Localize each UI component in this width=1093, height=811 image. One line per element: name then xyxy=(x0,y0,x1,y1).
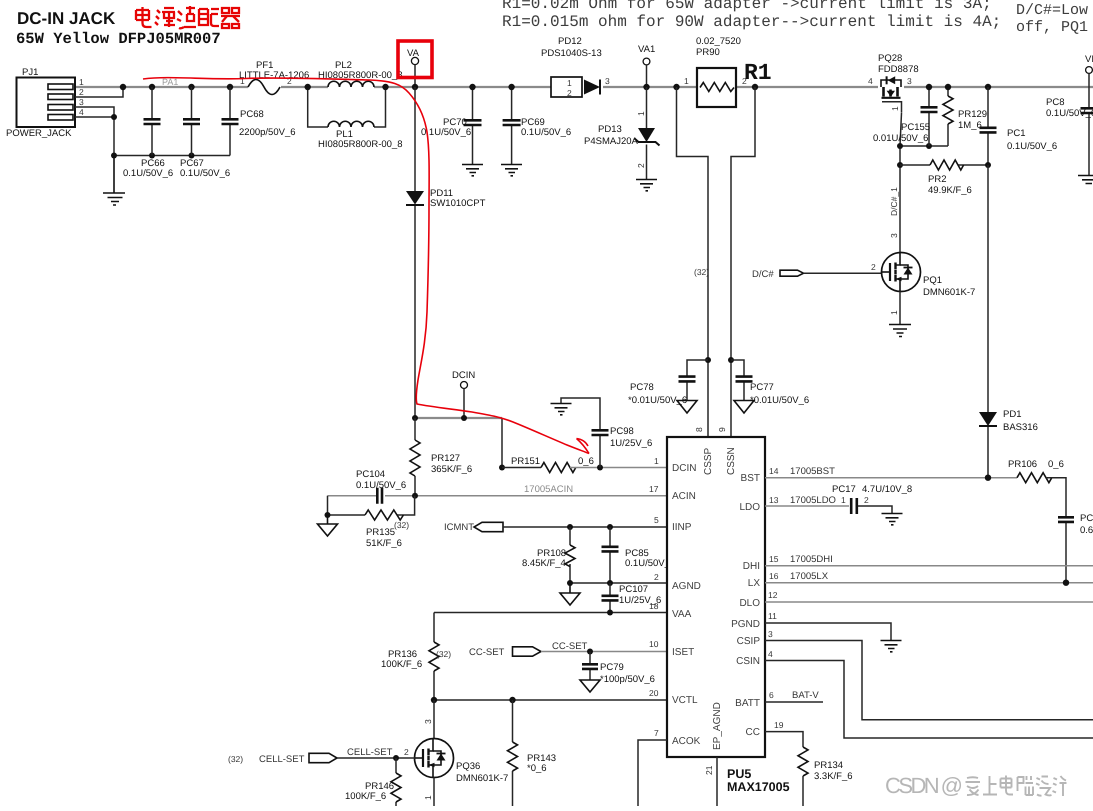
ground PGND xyxy=(881,641,902,652)
node dot ISET/PC79 xyxy=(587,649,593,655)
svg-text:ACIN: ACIN xyxy=(672,491,696,502)
svg-text:CELL-SET: CELL-SET xyxy=(347,747,393,758)
svg-text:*0.01U/50V_6: *0.01U/50V_6 xyxy=(750,395,809,406)
resistor PR136 xyxy=(381,613,451,701)
label (32) on sense line xyxy=(694,267,709,277)
wire PC155/PR129 bottom rail xyxy=(900,145,948,147)
node dot CELL-SET/PR146 xyxy=(393,755,399,761)
node dots gate rail xyxy=(897,143,932,168)
capacitor PC79 xyxy=(582,652,655,686)
net label BAT-V xyxy=(792,690,819,701)
ground rail under input caps xyxy=(114,155,230,157)
svg-text:0.1U/50V_6: 0.1U/50V_6 xyxy=(180,168,230,179)
svg-text:PC3: PC3 xyxy=(1080,513,1093,524)
capacitor PC78 xyxy=(628,360,708,406)
node dot LX/bootstrap xyxy=(1063,580,1069,586)
capacitor PC66 xyxy=(123,87,173,179)
testpoint V (clipped at right edge) xyxy=(1085,54,1093,87)
svg-text:ACOK: ACOK xyxy=(672,736,701,747)
label pin3 PQ36 xyxy=(423,719,433,724)
net label 17005BST xyxy=(790,466,835,477)
resistor PR127 xyxy=(410,418,472,496)
wire PGND net xyxy=(765,623,891,640)
svg-text:1: 1 xyxy=(567,78,572,88)
node dots bus right section xyxy=(926,84,991,90)
diode PD12 PDS1040S-13 xyxy=(541,36,610,98)
svg-text:CSIP: CSIP xyxy=(737,636,761,647)
wire PJ1 pin3 down xyxy=(75,107,114,156)
svg-text:VCTL: VCTL xyxy=(672,695,698,706)
diode PD11 SW1010CPT xyxy=(406,87,486,418)
svg-text:PC77: PC77 xyxy=(750,382,774,393)
svg-text:PR129: PR129 xyxy=(958,109,987,120)
ground PR135 (open triangle) xyxy=(318,515,338,536)
off-page connector D/C# xyxy=(752,262,882,280)
svg-text:0.1U/50V_6: 0.1U/50V_6 xyxy=(123,168,173,179)
svg-text:1: 1 xyxy=(889,310,899,315)
label D/C#_1 vertical xyxy=(889,187,899,216)
svg-text:HI0805R800R-00_8: HI0805R800R-00_8 xyxy=(318,139,403,150)
node dots DCIN rail xyxy=(412,415,505,471)
node junction dots on rail xyxy=(111,114,195,159)
svg-text:11: 11 xyxy=(768,611,777,621)
svg-text:8.45K/F_4: 8.45K/F_4 xyxy=(522,558,566,569)
net label 17005ACIN xyxy=(524,484,573,495)
svg-text:R1=0.02m Ohm for 65W adapter -: R1=0.02m Ohm for 65W adapter ->current l… xyxy=(502,0,992,13)
svg-text:10: 10 xyxy=(649,639,659,649)
svg-text:PC107: PC107 xyxy=(619,584,648,595)
wire DCIN rail xyxy=(415,417,502,419)
resistor PR106 xyxy=(1008,459,1066,516)
svg-text:4: 4 xyxy=(768,649,773,659)
svg-text:CC: CC xyxy=(746,727,760,738)
svg-text:PDS1040S-13: PDS1040S-13 xyxy=(541,48,602,59)
node dots AGND xyxy=(567,580,613,586)
wire PQ36 source down xyxy=(433,778,435,807)
title DC-IN JACK xyxy=(17,9,116,28)
svg-text:13: 13 xyxy=(769,495,779,505)
node dot PR151/PC98 xyxy=(597,465,603,471)
node dot VA1 xyxy=(643,84,649,90)
svg-text:51K/F_6: 51K/F_6 xyxy=(366,538,402,549)
svg-text:49.9K/F_6: 49.9K/F_6 xyxy=(928,185,972,196)
off-page connector ICMNT xyxy=(444,522,667,533)
svg-text:D/C#=Low: D/C#=Low xyxy=(1016,2,1088,19)
svg-text:3: 3 xyxy=(79,97,84,107)
svg-text:BST: BST xyxy=(741,473,760,484)
svg-text:2: 2 xyxy=(636,163,646,168)
svg-text:(32): (32) xyxy=(436,649,451,659)
ground PC98 xyxy=(551,404,572,415)
sense resistor PR90 0.02_7520 (R1) xyxy=(684,36,747,107)
annotation text line 2 xyxy=(502,13,1001,31)
svg-text:PC155: PC155 xyxy=(901,122,930,133)
svg-text:ISET: ISET xyxy=(672,647,694,658)
testpoint VA xyxy=(407,48,420,87)
svg-text:BAS316: BAS316 xyxy=(1003,422,1038,433)
svg-text:FDD8878: FDD8878 xyxy=(878,64,919,75)
svg-text:65W Yellow DFPJ05MR007: 65W Yellow DFPJ05MR007 xyxy=(16,30,221,48)
node dots CSSP/CSSN branches xyxy=(705,357,734,363)
svg-text:2: 2 xyxy=(404,747,409,757)
svg-text:(32): (32) xyxy=(228,754,243,764)
svg-text:DCIN: DCIN xyxy=(452,370,475,381)
svg-text:PC17: PC17 xyxy=(832,484,856,495)
resistor PR134 xyxy=(798,747,853,806)
resistor PR2 xyxy=(900,160,988,196)
svg-text:PR134: PR134 xyxy=(814,760,843,771)
svg-text:PR2: PR2 xyxy=(928,174,946,185)
svg-text:PR106: PR106 xyxy=(1008,459,1037,470)
svg-text:CSSN: CSSN xyxy=(726,447,737,475)
svg-text:MAX17005: MAX17005 xyxy=(727,780,790,794)
resistor PR135 (parallel) xyxy=(328,496,415,549)
wire PQ28 gate node down xyxy=(900,113,902,253)
svg-text:PU5: PU5 xyxy=(727,767,751,781)
capacitor PC155 xyxy=(873,87,938,146)
wire EP_AGND down xyxy=(716,757,718,806)
svg-text:CSIN: CSIN xyxy=(736,656,760,667)
svg-text:2: 2 xyxy=(864,495,869,505)
svg-text:3.3K/F_6: 3.3K/F_6 xyxy=(814,771,853,782)
svg-text:D/C#: D/C# xyxy=(752,269,774,280)
resistor PR129 xyxy=(943,87,987,146)
svg-text:1: 1 xyxy=(890,106,900,111)
svg-text:3: 3 xyxy=(768,629,773,639)
capacitor PC67 xyxy=(180,87,230,179)
svg-text:9: 9 xyxy=(717,427,727,432)
capacitor PC98 xyxy=(561,398,652,468)
resistor PR146 xyxy=(345,758,401,806)
capacitor PC1 xyxy=(980,87,1058,165)
wire VCTL net xyxy=(434,699,667,701)
capacitor PC3 bootstrap (right edge) xyxy=(1058,513,1093,583)
node dot ACIN/PR127 xyxy=(412,493,418,499)
net label 17005LX xyxy=(790,571,829,582)
svg-text:0.1U/50V_6: 0.1U/50V_6 xyxy=(521,127,571,138)
svg-text:EP_AGND: EP_AGND xyxy=(712,702,723,750)
svg-text:1U/25V_6: 1U/25V_6 xyxy=(610,438,652,449)
wire LDO net xyxy=(765,505,849,507)
svg-text:DLO: DLO xyxy=(739,598,760,609)
svg-text:100K/F_6: 100K/F_6 xyxy=(345,791,386,802)
ground PC77 (open triangle) xyxy=(734,401,754,414)
node dots IINP xyxy=(567,524,613,530)
svg-text:PC79: PC79 xyxy=(600,662,624,673)
ground PC70 xyxy=(462,165,483,176)
svg-text:7: 7 xyxy=(654,728,659,738)
svg-text:16: 16 xyxy=(769,571,779,581)
svg-text:17: 17 xyxy=(649,484,659,494)
annotation D/C#=Low xyxy=(1016,2,1088,19)
svg-text:0.1U/50V_6: 0.1U/50V_6 xyxy=(421,127,471,138)
svg-text:DMN601K-7: DMN601K-7 xyxy=(456,773,508,784)
svg-text:17005ACIN: 17005ACIN xyxy=(524,484,573,495)
svg-text:8: 8 xyxy=(694,427,704,432)
main input bus wire (gray) xyxy=(75,86,1093,88)
node dot BST/PD1 xyxy=(985,475,991,481)
node dot PR135 xyxy=(325,512,331,518)
node dot PC1/PR2 xyxy=(985,162,991,168)
wire PJ1 pin2 to bus xyxy=(75,87,123,97)
title 65W Yellow DFPJ05MR007 xyxy=(16,30,221,48)
svg-text:12: 12 xyxy=(768,590,778,600)
node dots PR90 sense taps xyxy=(673,84,758,90)
net label 17005LDO xyxy=(790,495,836,506)
svg-text:4: 4 xyxy=(868,76,873,86)
svg-text:VA: VA xyxy=(407,48,420,59)
svg-text:17005LX: 17005LX xyxy=(790,571,829,582)
capacitor PC77 xyxy=(731,360,809,406)
svg-text:VAA: VAA xyxy=(672,609,692,620)
title chinese 电源适配器 (red) xyxy=(136,6,240,28)
svg-text:18: 18 xyxy=(649,601,659,611)
resistor PR108 xyxy=(522,527,575,583)
svg-text:PC104: PC104 xyxy=(356,469,385,480)
node dot VAA/PC107 xyxy=(607,610,613,616)
svg-text:0.02_7520: 0.02_7520 xyxy=(696,36,741,47)
svg-text:PQ1: PQ1 xyxy=(923,275,942,286)
svg-text:21: 21 xyxy=(704,765,714,775)
svg-text:BAT-V: BAT-V xyxy=(792,690,819,701)
annotation off, PQ1 xyxy=(1016,19,1088,36)
svg-text:15: 15 xyxy=(769,554,779,564)
wire DLO net xyxy=(765,601,1093,603)
svg-text:CELL-SET: CELL-SET xyxy=(259,754,305,765)
svg-text:*100p/50V_6: *100p/50V_6 xyxy=(600,674,655,685)
svg-text:0.1U/50V_6: 0.1U/50V_6 xyxy=(356,480,406,491)
svg-text:1: 1 xyxy=(654,456,659,466)
capacitor PC69 xyxy=(503,87,572,164)
svg-text:4: 4 xyxy=(79,107,84,117)
svg-text:VIN: VIN xyxy=(1085,54,1093,65)
wire CSSN sense line xyxy=(731,87,755,437)
transistor PQ1 DMN601K-7 xyxy=(882,253,976,299)
svg-text:2: 2 xyxy=(567,88,572,98)
ground PC17 xyxy=(882,514,903,525)
inductor PL1 (parallel branch) xyxy=(308,87,403,150)
node dot VA xyxy=(412,84,418,90)
svg-text:2: 2 xyxy=(871,262,876,272)
svg-text:POWER_JACK: POWER_JACK xyxy=(6,128,72,139)
svg-text:VA1: VA1 xyxy=(638,44,655,55)
svg-text:PQ28: PQ28 xyxy=(878,53,902,64)
wire CC net xyxy=(765,732,803,747)
svg-text:3: 3 xyxy=(907,76,912,86)
svg-text:1: 1 xyxy=(636,111,646,116)
svg-text:17005LDO: 17005LDO xyxy=(790,495,836,506)
wire PC1 node down to PD1 xyxy=(987,165,989,478)
testpoint VA1 xyxy=(638,44,655,87)
svg-text:PR127: PR127 xyxy=(431,453,460,464)
wire BST net xyxy=(765,477,1017,479)
svg-text:17005DHI: 17005DHI xyxy=(790,554,833,565)
off-page connector CC-SET xyxy=(469,641,667,658)
svg-text:DC-IN JACK: DC-IN JACK xyxy=(17,9,116,28)
svg-text:PQ36: PQ36 xyxy=(456,761,480,772)
svg-text:0_6: 0_6 xyxy=(578,456,594,467)
svg-text:CSDN @: CSDN @ xyxy=(885,773,963,798)
node dots VCTL xyxy=(431,697,516,703)
svg-text:R1=0.015m ohm for 90W adapter-: R1=0.015m ohm for 90W adapter-->current … xyxy=(502,13,1001,31)
watermark chinese 爱上电路设计 (gray strokes) xyxy=(966,776,1067,797)
svg-text:365K/F_6: 365K/F_6 xyxy=(431,464,472,475)
svg-text:P4SMAJ20A: P4SMAJ20A xyxy=(584,136,639,147)
svg-text:0.68: 0.68 xyxy=(1080,525,1093,536)
label R1 (big) xyxy=(744,60,772,86)
svg-text:3: 3 xyxy=(605,76,610,86)
wire DHI net xyxy=(765,565,1093,567)
svg-text:5: 5 xyxy=(654,515,659,525)
wire ACIN net xyxy=(385,495,667,497)
capacitor PC107 xyxy=(602,583,662,613)
svg-text:LITTLE-7A-1206: LITTLE-7A-1206 xyxy=(239,70,309,81)
svg-text:off, PQ1: off, PQ1 xyxy=(1016,19,1088,36)
svg-text:PR151: PR151 xyxy=(511,456,540,467)
watermark CSDN xyxy=(885,773,963,798)
svg-text:D/C#_1: D/C#_1 xyxy=(889,187,899,216)
ground PD13 xyxy=(636,180,657,191)
inductor PL2 xyxy=(318,60,403,87)
label pin1 PQ1 xyxy=(889,310,899,315)
svg-text:19: 19 xyxy=(774,720,784,730)
capacitor PC104 xyxy=(328,469,407,504)
ground (input rail) xyxy=(103,156,125,206)
svg-text:CC-SET: CC-SET xyxy=(552,641,588,652)
net label 17005DHI xyxy=(790,554,833,565)
svg-text:(32): (32) xyxy=(394,520,409,530)
svg-text:PC98: PC98 xyxy=(610,426,634,437)
svg-text:CC-SET: CC-SET xyxy=(469,647,505,658)
ground PC79 (open triangle) xyxy=(580,680,600,692)
node dots PL1/PL2 xyxy=(305,84,389,90)
svg-text:1: 1 xyxy=(684,76,689,86)
label pin3 PQ1 xyxy=(889,233,899,238)
capacitor PC17 xyxy=(832,484,912,514)
zener diode PD13 P4SMAJ20A xyxy=(584,87,660,179)
wire BATT net xyxy=(765,701,823,703)
svg-text:PD1: PD1 xyxy=(1003,409,1021,420)
off-page connector CELL-SET xyxy=(228,747,415,765)
capacitor PC85 xyxy=(602,527,676,583)
svg-text:DHI: DHI xyxy=(743,561,760,572)
svg-text:1: 1 xyxy=(841,495,846,505)
svg-text:1: 1 xyxy=(423,795,433,800)
svg-text:0_6: 0_6 xyxy=(1048,459,1064,470)
svg-text:1M_6: 1M_6 xyxy=(958,120,982,131)
svg-text:DMN601K-7: DMN601K-7 xyxy=(923,287,975,298)
svg-text:*0_6: *0_6 xyxy=(527,763,547,774)
svg-text:2200p/50V_6: 2200p/50V_6 xyxy=(239,127,296,138)
svg-text:0.01U/50V_6: 0.01U/50V_6 xyxy=(873,133,928,144)
ground PC78 (open triangle) xyxy=(677,401,697,414)
svg-text:R1: R1 xyxy=(744,60,772,86)
svg-text:3: 3 xyxy=(423,719,433,724)
resistor PR151 xyxy=(502,456,667,473)
svg-text:(32): (32) xyxy=(694,267,709,277)
wire CSIP net xyxy=(765,641,1093,720)
wire PJ1 pin4 xyxy=(75,116,114,118)
svg-text:20: 20 xyxy=(649,688,659,698)
label pin1 PQ36 xyxy=(423,795,433,800)
svg-text:4.7U/10V_8: 4.7U/10V_8 xyxy=(862,484,912,495)
IC PU5 MAX17005 xyxy=(649,427,790,794)
resistor PR143 xyxy=(508,700,557,806)
transistor PQ28 FDD8878 xyxy=(868,53,919,113)
annotation text line 1 xyxy=(502,0,992,13)
capacitor PC8 (right edge) xyxy=(1046,87,1093,175)
svg-text:0.1U/50V_6: 0.1U/50V_6 xyxy=(1007,141,1057,152)
ground PR108 (open triangle) xyxy=(560,583,580,605)
fuse PF1 LITTLE-7A-1206 xyxy=(239,60,309,95)
capacitor PC68 xyxy=(222,87,296,156)
node junction dots on bus xyxy=(120,84,233,90)
svg-text:ICMNT: ICMNT xyxy=(444,522,474,533)
wire ACOK net xyxy=(638,740,667,806)
svg-text:6: 6 xyxy=(769,690,774,700)
svg-text:LX: LX xyxy=(748,578,761,589)
svg-text:2: 2 xyxy=(654,572,659,582)
svg-text:LDO: LDO xyxy=(739,502,760,513)
transistor PQ36 DMN601K-7 xyxy=(415,739,509,785)
ground PC8 xyxy=(1078,176,1093,184)
svg-text:PR135: PR135 xyxy=(366,527,395,538)
testpoint DCIN xyxy=(452,370,475,418)
svg-text:0.1U/50V_6: 0.1U/50V_6 xyxy=(1046,108,1093,119)
svg-text:PC8: PC8 xyxy=(1046,97,1064,108)
net label PA1 (gray) xyxy=(162,77,178,87)
svg-text:17005BST: 17005BST xyxy=(790,466,835,477)
svg-text:1: 1 xyxy=(79,77,84,87)
wire VAA net xyxy=(434,612,667,614)
wire CSIN net xyxy=(765,661,1093,739)
connector PJ1 POWER_JACK xyxy=(6,67,84,139)
svg-text:PC78: PC78 xyxy=(630,382,654,393)
svg-text:PD13: PD13 xyxy=(598,124,622,135)
svg-text:IINP: IINP xyxy=(672,522,692,533)
capacitor PC70 xyxy=(421,87,482,164)
svg-text:DCIN: DCIN xyxy=(672,463,696,474)
red highlight box around VA xyxy=(398,41,432,78)
svg-text:BATT: BATT xyxy=(735,698,760,709)
svg-text:PR90: PR90 xyxy=(696,47,720,58)
svg-text:14: 14 xyxy=(769,466,779,476)
ground PQ1 xyxy=(889,325,911,337)
svg-text:PGND: PGND xyxy=(731,619,760,630)
wire LX net xyxy=(765,582,1093,584)
svg-text:SW1010CPT: SW1010CPT xyxy=(430,198,486,209)
svg-text:100K/F_6: 100K/F_6 xyxy=(381,659,422,670)
wire PQ1 source to ground xyxy=(899,292,901,325)
svg-text:PJ1: PJ1 xyxy=(22,67,38,78)
red annotation freehand line xyxy=(143,78,589,454)
ground PC69 xyxy=(501,165,522,176)
svg-text:CSSP: CSSP xyxy=(703,447,714,475)
node dots PC70 PC69 xyxy=(469,84,515,90)
svg-text:PC68: PC68 xyxy=(240,109,264,120)
wire VCTL to PQ36 drain xyxy=(433,700,435,739)
diode PD1 BAS316 xyxy=(979,409,1038,433)
svg-text:PC1: PC1 xyxy=(1007,128,1025,139)
svg-text:AGND: AGND xyxy=(672,581,701,592)
svg-text:2: 2 xyxy=(79,87,84,97)
wire AGND net xyxy=(570,582,667,584)
wire CSSP sense line xyxy=(677,87,709,437)
svg-text:PD12: PD12 xyxy=(558,36,582,47)
svg-text:3: 3 xyxy=(889,233,899,238)
